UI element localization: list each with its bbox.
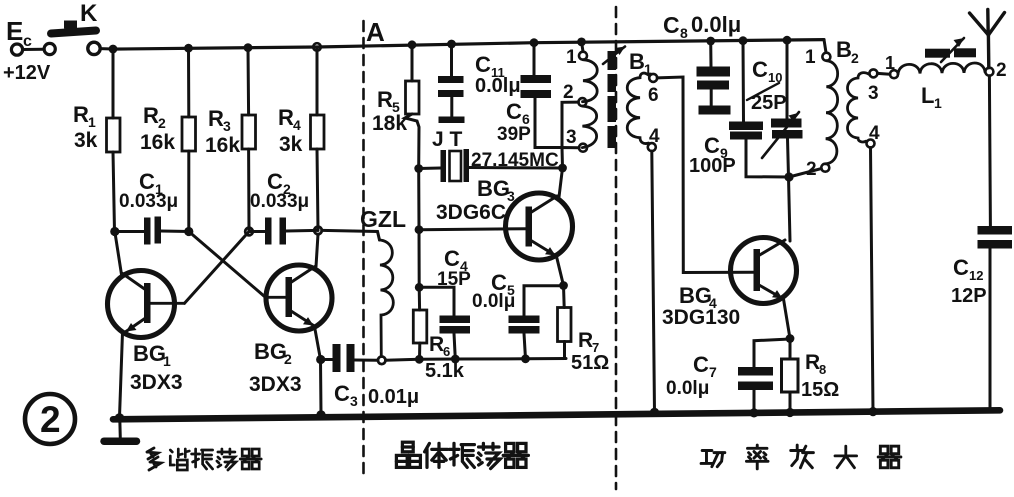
node ring rail R4 <box>313 43 321 51</box>
figure number circled 2 <box>25 394 75 444</box>
svg-text:3k: 3k <box>279 133 303 156</box>
svg-text:0.0lμ: 0.0lμ <box>666 378 709 399</box>
label C8 0.01u <box>663 12 741 41</box>
node dot C4 tap <box>415 283 424 292</box>
svg-text:R: R <box>143 103 159 128</box>
label B2 pin 3 <box>868 83 879 104</box>
svg-text:12: 12 <box>969 268 983 283</box>
svg-text:3DX3: 3DX3 <box>249 373 302 396</box>
transformer B1 primary winding 2-3 <box>579 106 597 152</box>
resistor R7 <box>558 286 572 359</box>
label JT <box>432 128 463 151</box>
resistor R6 <box>413 287 427 359</box>
svg-text:C: C <box>506 99 522 124</box>
terminal circle Ec left <box>11 44 22 55</box>
node ring GZL bottom <box>378 357 386 365</box>
svg-text:C: C <box>693 352 709 377</box>
svg-text:2: 2 <box>563 82 574 103</box>
svg-text:16k: 16k <box>205 134 240 157</box>
antenna <box>970 10 1005 68</box>
svg-text:8: 8 <box>819 362 826 377</box>
wire base bias vertical <box>417 169 421 288</box>
wire BG1 emitter to ground rail <box>120 333 123 418</box>
svg-text:+12V: +12V <box>3 62 51 84</box>
svg-text:10: 10 <box>768 70 782 85</box>
section title crystal oscillator (Chinese) <box>396 442 528 468</box>
node dot rail B2 pin4 <box>868 407 877 416</box>
svg-text:39P: 39P <box>497 124 531 145</box>
svg-text:2: 2 <box>40 399 61 440</box>
node dot rail R8 <box>785 408 794 417</box>
capacitor C2 <box>249 218 318 245</box>
resistor R8 <box>782 339 799 413</box>
svg-text:15P: 15P <box>437 269 471 290</box>
node dot C5 bottom <box>521 354 530 363</box>
label R7 51ohm <box>571 329 609 374</box>
svg-text:0.0lμ: 0.0lμ <box>475 75 521 97</box>
wire cross-couple C2 to BG1 base <box>185 232 250 304</box>
svg-text:3: 3 <box>223 118 231 134</box>
label BG4 3DG130 <box>662 283 740 329</box>
wire B1 pin3 to collector node <box>562 148 579 169</box>
resistor R1 <box>107 49 121 232</box>
svg-text:3: 3 <box>868 83 879 104</box>
svg-text:R: R <box>208 106 224 131</box>
switch K label <box>80 0 98 27</box>
label C5 0.01u <box>472 270 515 312</box>
svg-text:0.01μ: 0.01μ <box>368 386 419 408</box>
label 27.145MC <box>471 150 559 171</box>
label BG3 3DG6C <box>436 176 515 224</box>
node dot rail BG2 emitter <box>316 410 325 419</box>
section divider A dashed <box>362 21 365 477</box>
wire B1 pin2 to collector node <box>562 102 578 147</box>
terminal circle switch output <box>88 42 100 54</box>
pointer line C10 <box>747 83 779 100</box>
svg-text:4: 4 <box>869 123 880 144</box>
wire cross-couple C1 to BG2 base <box>189 232 266 298</box>
node dot rail R3 <box>244 43 253 52</box>
svg-text:0.033μ: 0.033μ <box>250 191 309 212</box>
svg-text:6: 6 <box>443 344 450 359</box>
capacitor C7 <box>738 339 790 413</box>
node dot BG3 collector <box>558 164 567 173</box>
svg-text:5.1k: 5.1k <box>425 360 465 382</box>
label C9 100P <box>689 133 736 177</box>
svg-text:6: 6 <box>648 85 659 106</box>
svg-text:BG: BG <box>133 341 166 366</box>
svg-text:0.0lμ: 0.0lμ <box>691 12 741 37</box>
wire switch to rail <box>101 47 114 50</box>
section title power amplifier (Chinese) <box>701 445 901 469</box>
label B1 pin 1 <box>566 47 577 68</box>
svg-text:3DG130: 3DG130 <box>662 306 740 329</box>
label B1 pin 3 <box>566 127 577 148</box>
node dot C1 left <box>110 227 119 236</box>
transistor BG4 <box>731 238 797 304</box>
svg-text:2: 2 <box>851 50 859 66</box>
wire B1 pin4 to ground rail <box>652 151 655 412</box>
wire Ec terminals <box>23 48 44 51</box>
svg-text:R: R <box>278 105 294 130</box>
svg-text:2: 2 <box>158 115 166 131</box>
label C7 0.01u <box>666 352 717 399</box>
label C12 12P <box>951 255 987 307</box>
svg-text:7: 7 <box>709 364 717 380</box>
svg-text:1: 1 <box>885 53 895 73</box>
node dot C1 right <box>184 227 193 236</box>
wire B2 pin3 to L1 pin1 <box>877 72 890 76</box>
node dot BG3 base tap <box>415 225 424 234</box>
wire BG1 collector <box>115 232 122 275</box>
label B2 pin 4 <box>869 123 880 144</box>
svg-text:4: 4 <box>293 117 301 133</box>
svg-text:3k: 3k <box>74 129 98 152</box>
ground node dot <box>115 413 125 423</box>
capacitor C4 <box>419 287 470 359</box>
node ring C2 right / R4 node <box>314 227 322 235</box>
wire B1 pin6 to BG4 base <box>657 77 753 273</box>
core bar L1 <box>925 48 976 57</box>
svg-text:18k: 18k <box>372 112 407 135</box>
transformer B2 secondary winding <box>848 69 878 147</box>
svg-text:GZL: GZL <box>360 206 406 232</box>
svg-text:1: 1 <box>88 114 96 130</box>
svg-text:C: C <box>663 12 680 38</box>
+12V supply label <box>3 62 51 84</box>
transistor BG2 <box>265 265 332 331</box>
wire crystal to BG3 collector node <box>469 166 563 170</box>
label R1 3k <box>73 102 98 152</box>
svg-text:8: 8 <box>680 25 688 41</box>
adjustment arrow B1 <box>603 47 625 65</box>
terminal ring L1 pin2 <box>985 68 993 76</box>
node ring C2 left <box>245 228 253 236</box>
label R5 18k <box>372 87 407 135</box>
wire R5 node to crystal <box>419 167 441 171</box>
node dot rail C6 <box>530 38 539 47</box>
label R3 16k <box>205 106 240 157</box>
terminal ring L1 pin1 <box>890 70 898 78</box>
svg-text:C: C <box>953 255 969 280</box>
wire oscillator emitter bus <box>419 357 566 361</box>
svg-text:1: 1 <box>566 47 577 68</box>
capacitor C10 variable <box>762 40 803 177</box>
svg-text:B: B <box>629 49 645 74</box>
node dot rail C11 <box>447 40 456 49</box>
svg-text:C: C <box>752 57 768 82</box>
svg-text:R: R <box>578 329 593 352</box>
node dot rail R5 <box>408 40 417 49</box>
node dot rail C9 <box>739 36 748 45</box>
wire R4 node to GZL top <box>322 230 380 240</box>
label B1 <box>629 49 652 77</box>
ground symbol <box>104 419 137 441</box>
label L1 pin 1 <box>885 53 895 73</box>
battery terminal Ec label <box>6 16 32 50</box>
label C11 0.01u <box>475 52 521 97</box>
node dot BG4 emitter <box>786 334 795 343</box>
svg-text:c: c <box>23 33 32 50</box>
resistor R5 <box>405 45 419 169</box>
wire GZL node to R6 node <box>386 359 420 360</box>
wire junction down to BG4 collector <box>789 177 791 241</box>
node dot C9 C10 junction <box>784 172 793 181</box>
svg-text:3: 3 <box>350 393 358 409</box>
svg-text:15Ω: 15Ω <box>801 379 839 401</box>
label C3 0.01u <box>334 381 419 409</box>
inductor GZL <box>380 240 394 357</box>
svg-text:C: C <box>334 381 350 406</box>
resistor R2 <box>182 48 196 231</box>
node A label <box>366 17 385 47</box>
svg-text:BG: BG <box>477 176 510 201</box>
svg-text:R: R <box>73 102 89 127</box>
ground rail bottom <box>113 410 1000 419</box>
crystal JT <box>441 149 470 182</box>
svg-text:0.033μ: 0.033μ <box>119 191 178 212</box>
wire BG3 collector up <box>559 168 563 197</box>
node dot rail C7 <box>749 408 758 417</box>
node dot rail C10 <box>783 36 792 45</box>
capacitor C3 <box>321 344 378 372</box>
label L1 <box>921 83 942 111</box>
wire junction to B2 pin2 <box>789 169 821 177</box>
svg-text:BG: BG <box>679 283 712 308</box>
svg-text:K: K <box>80 0 98 27</box>
svg-text:0.0lμ: 0.0lμ <box>472 291 515 312</box>
resistor R3 <box>242 48 256 232</box>
label B1 pin 6 <box>648 85 659 106</box>
wire L1 pin2 down to C12 <box>989 76 990 226</box>
label C4 15P <box>437 246 471 290</box>
wire B2 pin4 to ground rail <box>871 148 874 412</box>
svg-text:16k: 16k <box>140 131 175 154</box>
svg-text:C: C <box>444 246 460 271</box>
wire R4 node down to BG2 collector <box>316 234 318 266</box>
capacitor C9 <box>729 41 789 177</box>
svg-text:B: B <box>836 37 852 62</box>
node dot rail R2 <box>184 44 193 53</box>
label R4 3k <box>278 105 303 156</box>
svg-text:J T: J T <box>432 128 463 151</box>
transformer B1 primary winding 1-2 <box>578 42 597 106</box>
wire BG3 emitter down <box>557 257 564 286</box>
label B2 pin 2 <box>806 159 817 180</box>
section divider 2 dashed <box>615 7 618 489</box>
adjustment arrow L1 <box>941 38 964 62</box>
svg-text:3DG6C: 3DG6C <box>436 201 506 224</box>
wire BG3 base <box>419 229 526 230</box>
svg-text:L: L <box>921 83 934 108</box>
label R8 15ohm <box>801 351 839 401</box>
svg-text:R: R <box>805 351 820 374</box>
node dot C4 bottom <box>451 355 460 364</box>
svg-text:1: 1 <box>805 47 816 68</box>
transformer B1 secondary winding <box>627 73 657 151</box>
capacitor C12 <box>978 226 1013 410</box>
top supply rail <box>110 40 824 50</box>
node dot rail R1 <box>109 45 118 54</box>
label C10 25P <box>751 57 787 114</box>
transformer B1 core <box>608 51 617 148</box>
transistor BG1 <box>108 271 185 338</box>
svg-text:100P: 100P <box>689 155 736 177</box>
node dot rail B1 pin4 <box>650 408 659 417</box>
label R6 5.1k <box>425 333 465 382</box>
svg-text:3: 3 <box>507 188 515 204</box>
svg-text:R: R <box>377 87 393 112</box>
label BG1 3DX3 <box>130 341 183 394</box>
svg-text:R: R <box>429 333 444 356</box>
inductor L1 <box>898 63 985 74</box>
label B2 <box>836 37 859 66</box>
svg-text:A: A <box>366 17 385 47</box>
node dot rail B1 pin1 <box>577 38 586 47</box>
svg-text:C: C <box>475 52 491 77</box>
label B1 pin 2 <box>563 82 574 103</box>
wire BG2 emitter down to rail <box>315 327 322 415</box>
svg-text:12P: 12P <box>951 285 987 307</box>
capacitor C11 <box>438 44 465 123</box>
section title multivibrator (Chinese) <box>147 448 261 470</box>
label B1 pin 4 <box>649 126 660 147</box>
node dot C3 tap <box>316 355 325 364</box>
label GZL <box>360 206 406 232</box>
svg-text:2: 2 <box>284 351 292 367</box>
svg-text:1: 1 <box>934 95 942 111</box>
svg-text:3: 3 <box>566 127 577 148</box>
label BG2 3DX3 <box>249 339 302 396</box>
svg-text:E: E <box>6 16 23 46</box>
transistor BG3 <box>506 193 573 260</box>
label C6 39P <box>497 99 531 145</box>
capacitor C8 <box>697 41 731 115</box>
label R2 16k <box>140 103 175 154</box>
switch K button bump <box>64 21 77 29</box>
transformer B2 primary winding <box>821 40 837 172</box>
wire BG4 emitter down <box>784 299 791 339</box>
label L1 pin 2 <box>996 60 1007 81</box>
resistor R4 <box>311 47 325 230</box>
label C2 0.033u <box>250 169 309 212</box>
node dot rail C8 <box>706 37 715 46</box>
node dot R5 bottom <box>414 164 423 173</box>
capacitor C6 <box>521 43 563 148</box>
switch K bar <box>51 31 96 34</box>
node dot R6 bottom <box>415 355 424 364</box>
capacitor C5 <box>509 286 564 359</box>
label B2 pin 1 <box>805 47 816 68</box>
terminal circle Ec right <box>44 43 55 54</box>
label C1 0.033u <box>119 169 178 212</box>
svg-text:51Ω: 51Ω <box>571 352 609 374</box>
capacitor C1 <box>115 217 189 245</box>
svg-text:2: 2 <box>996 60 1007 81</box>
svg-text:4: 4 <box>649 126 660 147</box>
svg-text:3DX3: 3DX3 <box>130 371 183 394</box>
svg-text:2: 2 <box>806 159 817 180</box>
svg-text:1: 1 <box>163 353 171 369</box>
node dot BG3 emitter <box>559 281 568 290</box>
svg-text:BG: BG <box>254 339 287 364</box>
